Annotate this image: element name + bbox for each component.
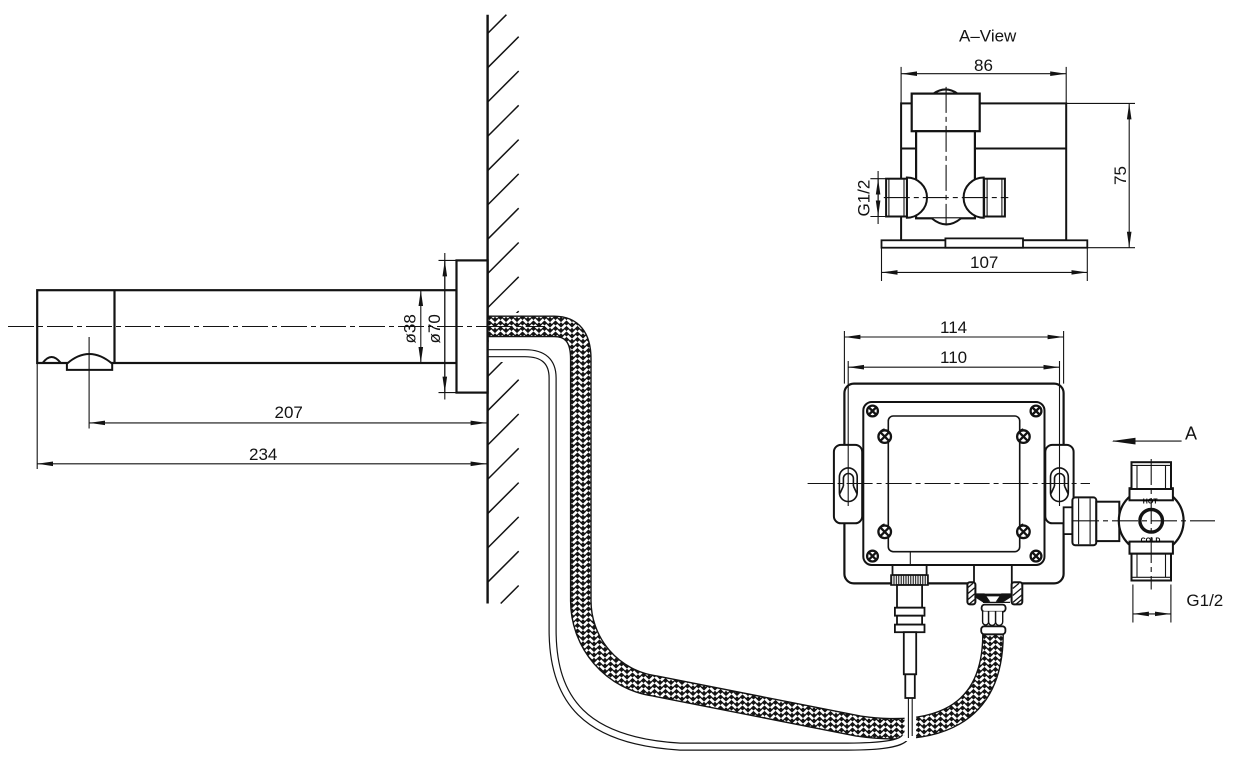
panel screws inner <box>878 429 1029 538</box>
svg-text:110: 110 <box>940 348 967 367</box>
sensor gland knurled ring <box>891 575 928 585</box>
sensor gland centerline <box>909 551 911 576</box>
valve body circle <box>1119 488 1184 553</box>
box side slab <box>901 103 1066 240</box>
control box body <box>844 384 1063 584</box>
right outlet bulge <box>964 178 984 218</box>
braided hose <box>488 326 993 728</box>
svg-text:COLD: COLD <box>1141 538 1161 545</box>
dim 107 <box>881 248 883 281</box>
box lid <box>863 402 1044 565</box>
dim 114 <box>844 336 1063 338</box>
234 left extension <box>36 363 38 469</box>
sensor gland stub <box>893 565 927 575</box>
sensor plug body <box>897 585 922 608</box>
svg-text:HOT: HOT <box>1143 498 1159 505</box>
lid inner panel <box>888 416 1019 552</box>
sensor cable lines <box>907 698 909 738</box>
flange wall plate <box>457 260 488 392</box>
hose entry funnel <box>984 594 1010 597</box>
base plate raised pad <box>945 238 1023 247</box>
dim 110 <box>848 366 1059 368</box>
centerline over braid <box>487 326 545 328</box>
hose gland flare nut left flank <box>967 582 975 604</box>
base plate <box>882 240 1088 247</box>
sensor cable white break over braid <box>907 694 913 703</box>
valve horizontal centerline <box>1073 520 1215 522</box>
spout centerline <box>8 326 487 328</box>
left threaded nipple <box>886 179 907 217</box>
spout head divider <box>113 290 115 363</box>
aerator dome <box>67 354 112 370</box>
hose ferrule bottom <box>981 626 1005 634</box>
spout body <box>37 290 456 363</box>
sensor probe stem <box>904 632 916 674</box>
outlets centerline <box>884 197 1009 199</box>
svg-text:A–View: A–View <box>959 27 1017 46</box>
svg-text:107: 107 <box>970 253 998 272</box>
hose corrugation <box>983 612 1003 626</box>
svg-text:86: 86 <box>974 56 993 75</box>
corner screws outer <box>867 406 1041 562</box>
dim o38 <box>420 290 422 363</box>
hose gland flare nut right flank <box>1012 582 1023 604</box>
svg-text:ø70: ø70 <box>425 314 444 343</box>
coupling hex nut <box>1072 497 1096 545</box>
svg-text:234: 234 <box>249 445 277 464</box>
valve bottom collar <box>1130 542 1173 554</box>
pipe nut to valve <box>1096 502 1119 541</box>
dim 207 <box>89 422 487 424</box>
sensor window bump <box>43 357 61 363</box>
bottom dome <box>932 218 961 224</box>
valve mount block <box>934 89 958 93</box>
valve stem ring <box>1140 510 1163 533</box>
box centerline <box>808 483 1090 485</box>
valve top collar <box>1130 488 1173 500</box>
left outlet bulge <box>907 178 927 218</box>
right mounting ear <box>1045 445 1073 523</box>
A-view direction arrow <box>1113 440 1182 442</box>
sensor tube hose <box>488 353 906 746</box>
svg-text:ø38: ø38 <box>401 314 420 343</box>
wall edge <box>486 15 488 604</box>
dim 234 <box>37 463 486 465</box>
valve vertical centerline <box>1150 459 1152 590</box>
hose ferrule top <box>982 605 1006 612</box>
dim G1/2 valve <box>1132 585 1134 623</box>
svg-text:A: A <box>1185 424 1197 444</box>
valve body front <box>916 131 975 218</box>
hose gland stub <box>974 566 1012 592</box>
svg-text:207: 207 <box>275 403 303 422</box>
left keyhole slot <box>839 468 857 502</box>
right threaded nipple <box>984 179 1005 217</box>
dim 86 <box>900 67 902 104</box>
right keyhole slot <box>1051 468 1069 502</box>
left mounting ear <box>834 445 862 523</box>
svg-text:G1/2: G1/2 <box>1186 591 1223 610</box>
valve stub from box <box>1064 507 1073 534</box>
dim 110 extension lines <box>847 361 849 506</box>
dim 75 <box>1066 102 1135 104</box>
svg-text:75: 75 <box>1111 166 1130 185</box>
svg-text:G1/2: G1/2 <box>855 180 874 217</box>
dim G1/2 left <box>870 178 886 180</box>
dim 114 extension lines <box>843 331 845 384</box>
wall hole clearing <box>489 313 520 362</box>
svg-text:114: 114 <box>940 318 967 337</box>
wall hatching <box>488 15 519 604</box>
valve top threaded port <box>1132 462 1172 489</box>
dim o70 <box>444 253 446 400</box>
aerator centerline / 207 extension <box>88 337 90 429</box>
vertical centerline <box>945 87 947 225</box>
valve bottom threaded port <box>1132 554 1172 581</box>
